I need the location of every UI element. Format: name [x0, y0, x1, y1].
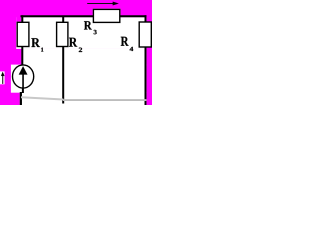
magenta notch left of top-left corner wire [16, 17, 21, 22]
white panel: small current-arrow patch at left edge [0, 71, 5, 84]
wire: bottom horizontal right segment (light seam) [63, 99, 146, 101]
current direction arrow at top (above R3), pointing right [87, 3, 113, 5]
wire: right branch vertical [145, 15, 147, 105]
white panel: bottom wire zone [20, 92, 147, 105]
resistor R3 box (horizontal) [93, 9, 119, 22]
resistor R4 box [139, 22, 151, 47]
white panel: current source zone [11, 65, 147, 93]
wire: R2 branch vertical [62, 17, 64, 104]
label R3 [84, 21, 92, 29]
white panel: left wire zone between R1 and source [21, 49, 146, 66]
magenta background [0, 0, 152, 105]
wire through source [22, 74, 24, 88]
wire: left branch vertical below circle [22, 88, 24, 94]
wire: top horizontal left of R3 [21, 15, 94, 17]
label R2 [69, 38, 77, 47]
wire: left branch vertical bottom segment (seam-shifted) [20, 92, 22, 105]
wire: left branch vertical upper segment [21, 15, 23, 67]
wire: top horizontal right of R3 [120, 15, 147, 17]
wire: bottom horizontal left segment (very faint seam) [21, 97, 63, 99]
white panel: R4 zone right extension [147, 22, 152, 48]
small current arrow at left edge, pointing up [2, 76, 4, 84]
label R4 [121, 37, 129, 46]
resistor R2 box [57, 22, 68, 46]
current source I1: circle [13, 65, 34, 88]
white panel: R3 box interior [93, 9, 121, 24]
white panel: R1/R2 row zone [16, 17, 146, 49]
current source arrow (up triangle) [19, 66, 27, 74]
resistor R1 box [17, 22, 29, 46]
label R1 [31, 38, 40, 47]
